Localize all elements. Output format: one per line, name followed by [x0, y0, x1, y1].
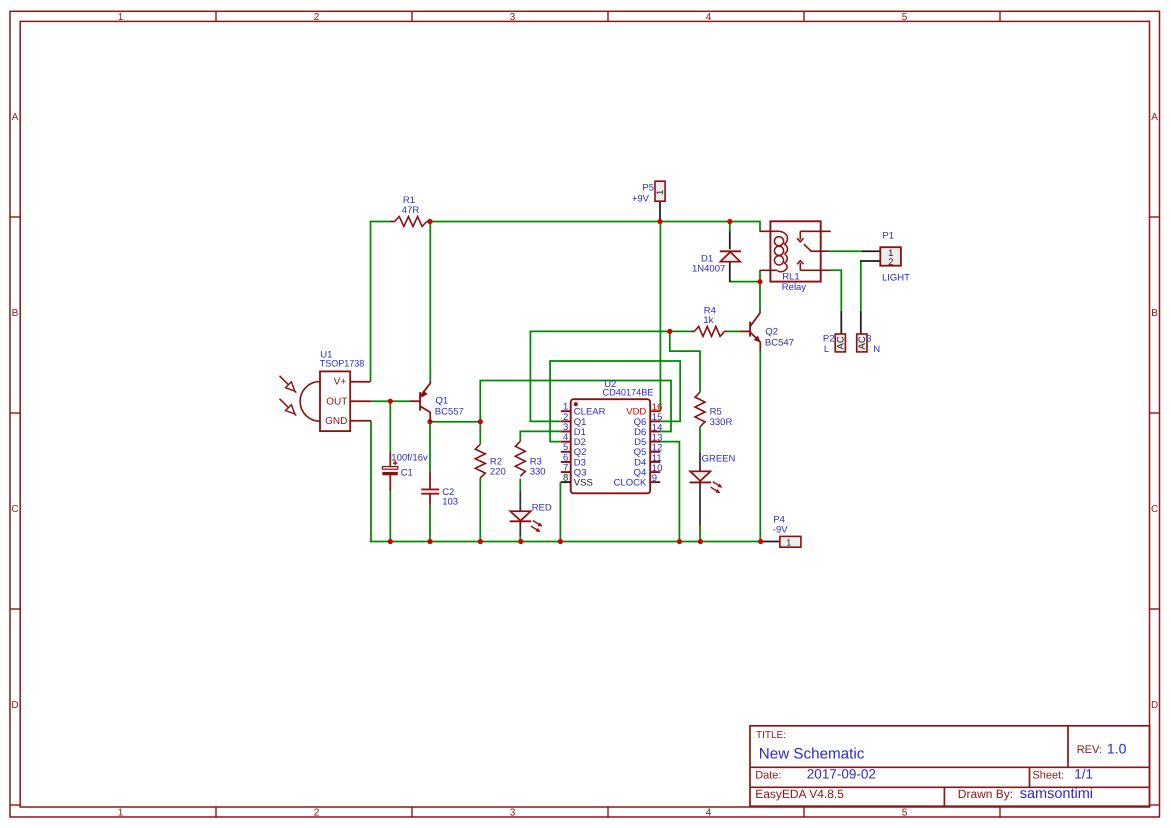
svg-text:Sheet:: Sheet: [1032, 769, 1064, 781]
svg-text:P1: P1 [882, 231, 894, 242]
svg-text:L: L [824, 344, 829, 355]
svg-text:CD40174BE: CD40174BE [603, 388, 654, 399]
svg-text:+9V: +9V [632, 193, 650, 204]
svg-text:1: 1 [118, 807, 124, 818]
svg-text:1N4007: 1N4007 [692, 264, 725, 275]
svg-text:1: 1 [118, 12, 124, 23]
svg-text:-9V: -9V [773, 524, 788, 535]
svg-text:EasyEDA V4.8.5: EasyEDA V4.8.5 [755, 787, 844, 801]
svg-text:3: 3 [866, 334, 871, 345]
svg-text:103: 103 [442, 496, 458, 507]
svg-text:5: 5 [902, 807, 908, 818]
svg-text:RED: RED [532, 503, 552, 514]
svg-text:D: D [11, 700, 18, 711]
svg-text:A: A [1151, 112, 1158, 123]
svg-text:Q1: Q1 [436, 396, 449, 407]
svg-text:LIGHT: LIGHT [882, 272, 910, 283]
svg-text:GND: GND [325, 416, 347, 427]
svg-text:AC: AC [836, 336, 847, 349]
svg-text:D: D [1151, 700, 1158, 711]
svg-text:47R: 47R [402, 205, 420, 216]
svg-text:B: B [12, 308, 19, 319]
svg-text:3: 3 [510, 12, 516, 23]
svg-text:4: 4 [706, 12, 712, 23]
svg-text:VSS: VSS [574, 478, 593, 489]
svg-text:2: 2 [314, 807, 320, 818]
svg-text:CLOCK: CLOCK [614, 478, 647, 489]
svg-text:REV:: REV: [1077, 744, 1102, 756]
svg-text:A: A [12, 112, 19, 123]
svg-text:1: 1 [786, 537, 791, 547]
svg-text:B: B [1151, 308, 1158, 319]
svg-text:Date:: Date: [755, 769, 781, 781]
svg-text:2: 2 [888, 257, 893, 268]
svg-text:100f/16v: 100f/16v [391, 453, 428, 464]
svg-text:New Schematic: New Schematic [759, 745, 865, 762]
svg-text:220: 220 [490, 467, 506, 478]
svg-text:Q2: Q2 [765, 327, 778, 338]
svg-text:8: 8 [563, 473, 568, 484]
svg-text:BC557: BC557 [435, 406, 464, 417]
svg-text:2: 2 [314, 12, 320, 23]
svg-text:2017-09-02: 2017-09-02 [807, 766, 876, 781]
svg-text:330: 330 [530, 467, 546, 478]
svg-text:GREEN: GREEN [702, 454, 736, 465]
svg-text:C: C [11, 504, 18, 515]
svg-text:R5: R5 [710, 406, 722, 417]
svg-text:1.0: 1.0 [1107, 740, 1127, 756]
svg-text:R1: R1 [403, 195, 415, 206]
svg-text:TSOP1738: TSOP1738 [320, 359, 365, 370]
svg-text:Drawn By:: Drawn By: [958, 787, 1013, 801]
svg-text:1k: 1k [703, 315, 713, 326]
svg-text:330R: 330R [710, 417, 733, 428]
svg-text:C: C [1151, 504, 1158, 515]
svg-text:D1: D1 [701, 253, 713, 264]
svg-text:N: N [873, 344, 880, 355]
svg-text:C1: C1 [401, 468, 413, 479]
svg-text:RL1: RL1 [782, 271, 799, 282]
svg-text:TITLE:: TITLE: [756, 730, 786, 741]
svg-text:1/1: 1/1 [1074, 766, 1093, 781]
svg-text:P5: P5 [642, 183, 654, 194]
svg-text:5: 5 [902, 12, 908, 23]
svg-text:4: 4 [706, 807, 712, 818]
svg-text:3: 3 [510, 807, 516, 818]
svg-text:OUT: OUT [326, 397, 347, 408]
svg-text:1: 1 [655, 190, 666, 195]
svg-text:samsontimi: samsontimi [1020, 786, 1093, 802]
svg-text:V+: V+ [334, 376, 347, 387]
svg-text:Relay: Relay [782, 282, 807, 293]
svg-text:9: 9 [652, 473, 657, 484]
svg-text:BC547: BC547 [765, 338, 794, 349]
